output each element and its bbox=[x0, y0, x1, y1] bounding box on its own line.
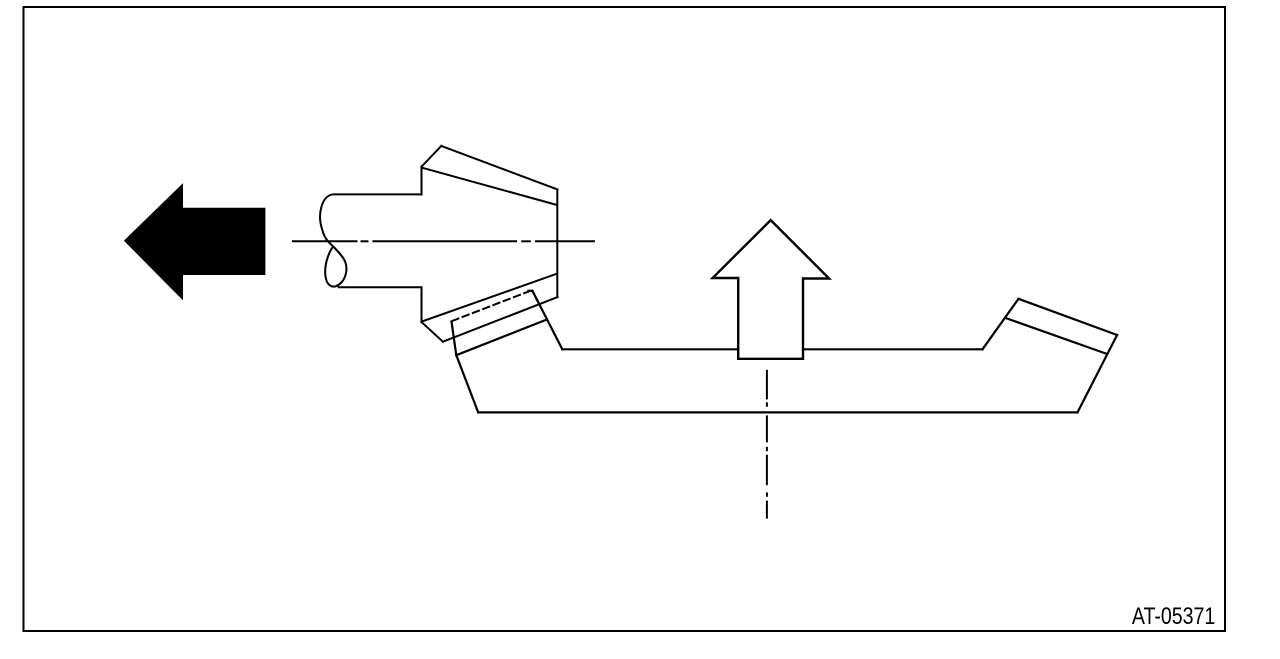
hub left vertical (lower) bbox=[421, 287, 423, 322]
bottom outer cone line bbox=[443, 297, 557, 342]
shaft break symbol (S-curve at shaft left end) bbox=[320, 194, 346, 286]
left tooth tip tick bbox=[528, 290, 532, 292]
gear right face bbox=[1078, 335, 1118, 412]
right tooth top line bbox=[1019, 299, 1118, 335]
shaft centerline (horizontal dash-dot) bbox=[292, 240, 595, 242]
drive pinion outline bbox=[422, 146, 558, 342]
right face bbox=[556, 190, 558, 298]
svg-text:AT-05371: AT-05371 bbox=[1132, 602, 1215, 629]
gear vertical centerline (dash-dot below arrow) bbox=[766, 370, 768, 519]
left tooth root line bbox=[456, 320, 547, 356]
top outer cone line bbox=[441, 146, 557, 190]
left tooth end face (steep, to gear top corner) bbox=[532, 291, 562, 350]
gear top face (right of arrow stem) bbox=[803, 348, 983, 350]
left tooth end face (upper) bbox=[452, 322, 457, 356]
gear bottom edge bbox=[478, 411, 1077, 413]
top tooth root line bbox=[422, 168, 557, 205]
ring gear cross-section bbox=[452, 291, 1118, 413]
direction arrow (black, pointing left) bbox=[124, 183, 266, 300]
left body face bbox=[456, 355, 478, 412]
top peak chamfer bbox=[422, 146, 442, 167]
shaft bottom line bbox=[338, 286, 422, 288]
gear top face (left of arrow stem) bbox=[562, 348, 738, 350]
right tooth end face bbox=[983, 299, 1019, 350]
hidden tooth tip line (dashed) bbox=[452, 292, 528, 321]
upward arrow (outline) bbox=[713, 220, 830, 359]
hub left vertical (upper) bbox=[421, 167, 423, 195]
right tooth root line bbox=[1007, 319, 1107, 354]
bottom tooth root line bbox=[422, 274, 557, 322]
shaft top line bbox=[333, 193, 422, 195]
bottom peak chamfer bbox=[422, 322, 443, 342]
